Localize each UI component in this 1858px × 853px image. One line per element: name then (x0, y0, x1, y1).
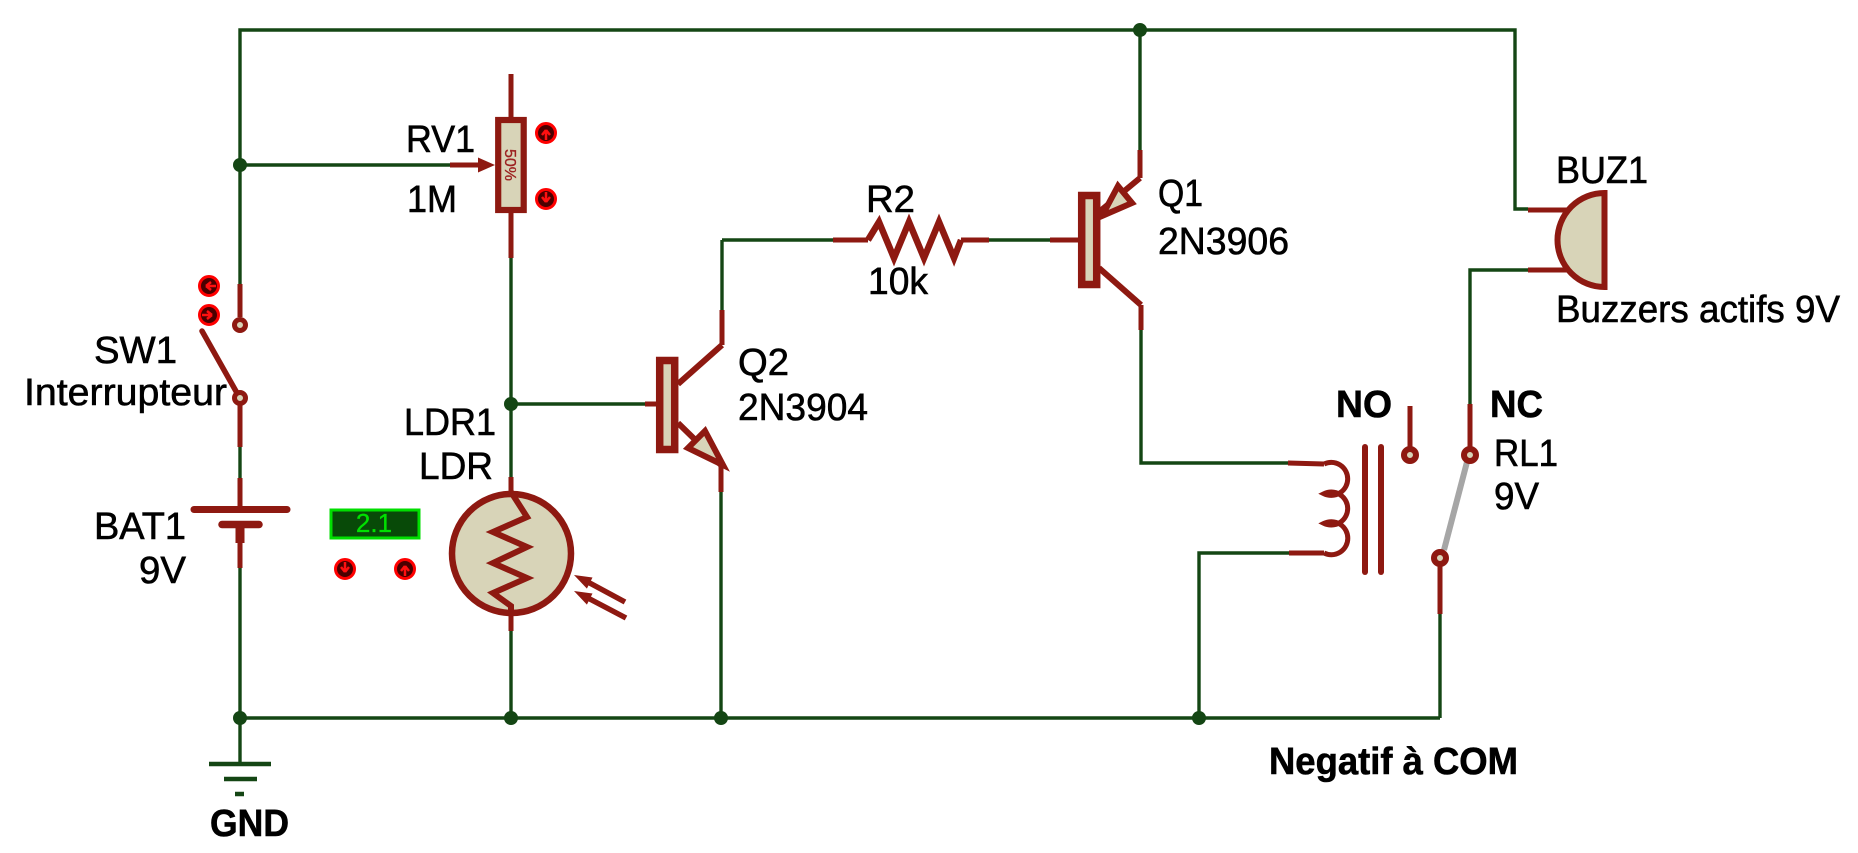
svg-text:9V: 9V (139, 550, 187, 592)
svg-text:2N3904: 2N3904 (738, 387, 868, 429)
svg-text:Negatif à COM: Negatif à COM (1269, 741, 1518, 783)
svg-text:Q2: Q2 (738, 342, 789, 384)
svg-text:Buzzers actifs 9V: Buzzers actifs 9V (1556, 289, 1841, 331)
svg-text:GND: GND (210, 803, 289, 845)
svg-text:Interrupteur: Interrupteur (24, 372, 227, 414)
svg-text:NO: NO (1336, 384, 1392, 426)
svg-text:R2: R2 (866, 179, 915, 221)
svg-text:LDR: LDR (419, 446, 493, 488)
svg-text:RL1: RL1 (1494, 433, 1558, 475)
svg-text:2.1: 2.1 (356, 508, 392, 538)
svg-text:2N3906: 2N3906 (1158, 221, 1289, 263)
svg-text:1M: 1M (407, 179, 457, 221)
svg-text:LDR1: LDR1 (404, 402, 496, 444)
svg-text:BUZ1: BUZ1 (1556, 150, 1648, 192)
svg-text:NC: NC (1490, 384, 1543, 426)
svg-text:50%: 50% (501, 149, 518, 181)
svg-text:Q1: Q1 (1158, 173, 1203, 215)
svg-text:9V: 9V (1494, 476, 1540, 518)
svg-text:SW1: SW1 (94, 330, 177, 372)
svg-text:RV1: RV1 (406, 119, 475, 161)
svg-text:BAT1: BAT1 (94, 506, 186, 548)
svg-text:10k: 10k (868, 261, 929, 303)
